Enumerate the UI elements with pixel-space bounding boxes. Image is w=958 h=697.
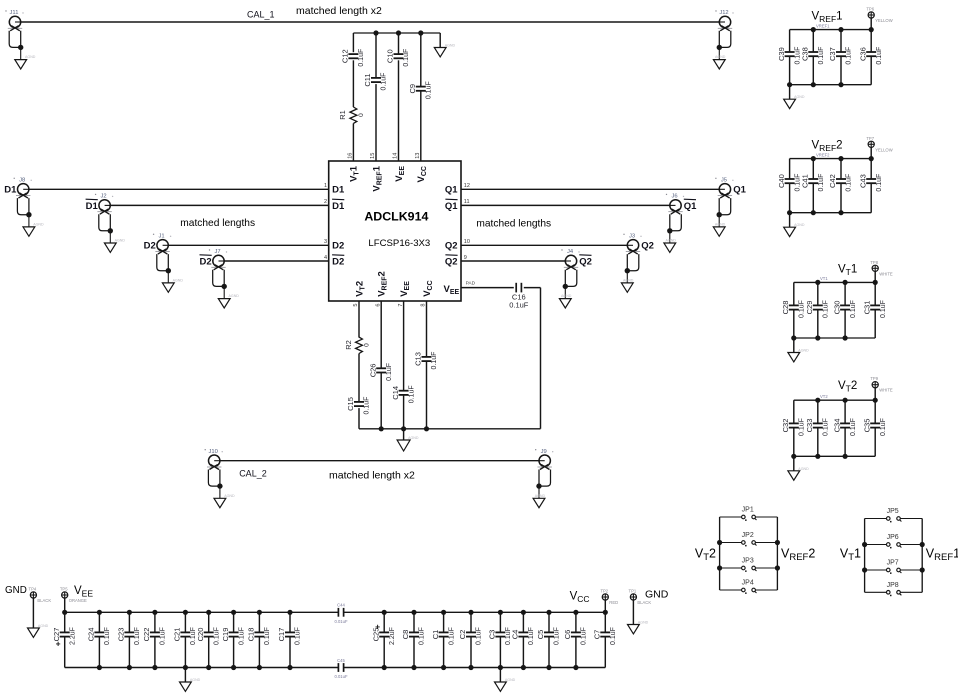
wire VEE bank ground stub	[184, 668, 186, 683]
svg-text:JP4: JP4	[742, 580, 754, 587]
wire PAD to C16	[461, 287, 514, 289]
svg-text:0.1uF: 0.1uF	[448, 627, 455, 645]
svg-text:C19: C19	[221, 628, 230, 642]
svg-text:C29: C29	[805, 301, 814, 315]
net label Q2bar	[579, 255, 592, 268]
svg-text:ORANGE: ORANGE	[69, 598, 87, 603]
svg-text:C23: C23	[117, 628, 126, 642]
wire ground stub VREF1	[789, 85, 791, 100]
pin number 10	[464, 239, 470, 245]
wire JP7 left	[865, 569, 887, 571]
wire C35 lower	[874, 428, 876, 457]
pin number 6	[375, 304, 381, 307]
wire C6 lower	[575, 637, 577, 668]
junction dots jumper rails	[717, 540, 780, 571]
wire top bypass gnd rail	[353, 32, 440, 34]
wire jumper block left rail 1	[864, 519, 866, 593]
connector J10 (CAL_2 SMA)	[205, 449, 235, 508]
wire C33 lower	[817, 428, 819, 457]
resistor R2	[344, 337, 371, 353]
wire C17 lower	[289, 637, 291, 668]
capacitor C13	[414, 352, 439, 370]
svg-text:C32: C32	[781, 419, 790, 433]
capacitor C25	[371, 622, 396, 645]
wire C39 upper	[789, 30, 791, 52]
capacitor C33	[805, 418, 830, 436]
pin number 3	[324, 239, 327, 245]
wire C23 upper	[128, 612, 130, 632]
svg-text:J4: J4	[567, 249, 574, 255]
test point TP6 (YELLOW)	[866, 7, 892, 30]
svg-text:0.01uF: 0.01uF	[334, 619, 347, 624]
junction dots VREF2 bottom rail	[787, 210, 844, 215]
svg-text:JP7: JP7	[887, 560, 899, 567]
pin number 5	[353, 304, 359, 307]
svg-text:C9: C9	[408, 84, 417, 94]
pin number 9	[464, 255, 467, 261]
net label GND (left)	[5, 585, 27, 596]
svg-text:0: 0	[364, 343, 371, 347]
svg-text:C26: C26	[368, 364, 377, 378]
junction dots jumper rails	[862, 542, 925, 573]
wire pin7 to C14	[403, 301, 405, 391]
svg-text:9: 9	[464, 255, 467, 261]
U1 pin label D2bar	[332, 255, 344, 268]
svg-text:J6: J6	[671, 194, 677, 200]
svg-text:AGND: AGND	[408, 436, 419, 440]
wire VEE top rail	[65, 611, 339, 613]
capacitor C42	[828, 174, 853, 192]
junction dots VT1 top rail	[815, 280, 878, 285]
svg-text:0.1uF: 0.1uF	[238, 627, 245, 645]
wire C5 upper	[548, 612, 550, 632]
svg-text:0.1uF: 0.1uF	[818, 47, 825, 65]
wire C19 lower	[233, 637, 235, 668]
svg-text:0.1uF: 0.1uF	[403, 49, 410, 67]
jumper JP2	[742, 532, 757, 546]
svg-text:VREF2: VREF2	[816, 152, 830, 157]
wire C42 lower	[840, 183, 842, 213]
wire VT1 top rail	[794, 281, 875, 283]
ground (VREF2 bank)	[784, 223, 805, 236]
pin label PAD	[466, 280, 476, 286]
capacitor C12	[341, 49, 366, 67]
note matched length x2 (bottom)	[329, 470, 415, 482]
wire C30 upper	[844, 282, 846, 305]
svg-text:0.1uF: 0.1uF	[509, 301, 529, 310]
wire VCC column upper	[420, 33, 422, 87]
wire JP1 left	[720, 516, 742, 518]
capacitor C39	[777, 47, 802, 65]
capacitor C15	[346, 397, 371, 415]
wire jumper block left rail 2	[719, 517, 721, 590]
svg-text:C44: C44	[337, 603, 345, 608]
capacitor C44 (rail coupling top)	[334, 603, 347, 624]
net label VREF2 (small)	[816, 152, 830, 157]
svg-text:C8: C8	[401, 630, 410, 640]
wire rail to ground stub	[439, 33, 441, 48]
svg-text:matched length x2: matched length x2	[329, 470, 415, 482]
svg-text:+: +	[56, 639, 61, 649]
wire VCC top rail	[344, 611, 606, 613]
svg-text:C4: C4	[511, 630, 520, 640]
svg-text:Q2: Q2	[579, 256, 592, 267]
svg-text:AGND: AGND	[224, 494, 235, 498]
svg-text:AGND: AGND	[38, 624, 49, 628]
svg-text:AGND: AGND	[638, 621, 649, 625]
svg-text:GND: GND	[645, 589, 669, 601]
svg-text:PAD: PAD	[466, 280, 476, 286]
svg-text:ADCLK914: ADCLK914	[364, 210, 428, 224]
net label VREF2 (jumper)	[781, 547, 815, 564]
svg-text:C2: C2	[458, 630, 467, 640]
wire jumper block right rail 2	[776, 517, 778, 590]
svg-text:0.1uF: 0.1uF	[476, 627, 483, 645]
svg-text:0.1uF: 0.1uF	[358, 49, 365, 67]
svg-text:Q2: Q2	[445, 256, 458, 267]
wire C18 lower	[258, 637, 260, 668]
capacitor C34	[832, 418, 857, 436]
pin number 16	[348, 153, 354, 159]
capacitor C22	[142, 627, 167, 645]
wire C28 lower	[793, 310, 795, 338]
svg-text:D2: D2	[332, 256, 344, 267]
wire C2 lower	[470, 637, 472, 668]
capacitor C31	[862, 300, 887, 318]
svg-text:1: 1	[324, 183, 327, 189]
ground (TP4)	[28, 624, 49, 637]
wire VEE column upper	[398, 33, 400, 54]
pin number 4	[324, 255, 327, 261]
wire C43 upper	[870, 159, 872, 179]
wire C30 lower	[844, 310, 846, 338]
capacitor C17	[277, 627, 302, 645]
svg-text:J1: J1	[159, 234, 165, 240]
wire VREF1 top rail	[790, 29, 872, 31]
test point TP9 (WHITE)	[870, 376, 893, 400]
U1 pin label VT1 (top)	[349, 165, 361, 182]
wire C42 upper	[840, 159, 842, 179]
wire C28 upper	[793, 282, 795, 305]
wire C25 upper	[383, 612, 385, 632]
capacitor C4	[511, 627, 536, 645]
svg-text:TP1: TP1	[629, 589, 637, 594]
svg-text:C11: C11	[363, 73, 372, 86]
wire C40 upper	[789, 159, 791, 179]
svg-text:JP6: JP6	[887, 534, 899, 541]
svg-text:AGND: AGND	[715, 55, 726, 59]
svg-text:0.1uF: 0.1uF	[818, 174, 825, 192]
svg-text:AGND: AGND	[535, 494, 546, 498]
wire C10 to pin14	[398, 60, 400, 161]
wire VT2 top rail	[794, 399, 875, 401]
svg-text:0.1uF: 0.1uF	[880, 300, 887, 318]
wire C7 upper	[604, 612, 606, 632]
svg-text:C14: C14	[391, 386, 400, 400]
svg-text:0.1uF: 0.1uF	[381, 73, 388, 91]
jumper JP1	[742, 507, 757, 521]
capacitor C6	[563, 627, 588, 645]
svg-text:0.1uF: 0.1uF	[528, 627, 535, 645]
svg-text:C33: C33	[805, 419, 814, 433]
svg-text:C35: C35	[862, 419, 871, 433]
svg-text:C15: C15	[346, 397, 355, 411]
svg-text:D1: D1	[86, 201, 99, 212]
wire C41 lower	[812, 183, 814, 213]
ground (VREF1 bank)	[784, 95, 805, 108]
svg-text:13: 13	[415, 153, 421, 159]
net label VCC	[570, 591, 590, 605]
capacitor C24	[87, 627, 112, 645]
wire C12 to R1	[352, 60, 354, 107]
svg-text:14: 14	[393, 153, 399, 159]
wire JP4 right	[756, 589, 778, 591]
wire JP4 left	[720, 589, 742, 591]
svg-text:JP5: JP5	[887, 508, 899, 515]
svg-text:J7: J7	[214, 249, 220, 255]
wire VT2 bottom rail	[794, 455, 875, 457]
svg-text:12: 12	[464, 183, 470, 189]
junction dots VEE top rail	[62, 610, 293, 615]
capacitor C5	[536, 627, 561, 645]
svg-text:0.1uF: 0.1uF	[426, 81, 433, 99]
svg-text:0.1uF: 0.1uF	[581, 627, 588, 645]
net label D1bar	[86, 199, 99, 212]
capacitor C16	[509, 283, 529, 310]
wire C43 lower	[870, 183, 872, 213]
wire C25 lower	[383, 637, 385, 668]
jumper JP4	[742, 580, 757, 594]
svg-text:0.1uF: 0.1uF	[160, 627, 167, 645]
svg-text:AGND: AGND	[666, 239, 677, 243]
connector J12 (CAL_1 SMA)	[713, 10, 733, 69]
capacitor C11	[363, 73, 388, 91]
wire C38 upper	[812, 30, 814, 52]
wire C21 upper	[184, 612, 186, 632]
connector J4 (Q2bar)	[559, 249, 579, 308]
svg-text:Q1: Q1	[445, 185, 458, 196]
wire C36 lower	[870, 56, 872, 84]
wire JP5 right	[900, 518, 922, 520]
wire ground stub VT1	[793, 338, 795, 353]
svg-text:YELLOW: YELLOW	[875, 18, 893, 23]
wire CAL_1	[21, 21, 720, 23]
svg-text:C45: C45	[337, 658, 345, 663]
svg-text:J5: J5	[721, 178, 727, 184]
svg-text:D2: D2	[200, 256, 212, 267]
ground (VEE bank)	[180, 678, 201, 691]
test point TP2 (RED)	[600, 589, 618, 613]
svg-text:C21: C21	[173, 628, 182, 642]
U1 pin label Q2	[445, 241, 458, 252]
wire pin6 to C26	[380, 301, 382, 368]
junction dots VCC top rail	[382, 610, 608, 615]
wire Q2	[461, 244, 627, 246]
svg-text:C39: C39	[777, 47, 786, 61]
ground (VT1 bank)	[788, 349, 809, 362]
wire C6 upper	[575, 612, 577, 632]
svg-text:15: 15	[370, 153, 376, 159]
svg-text:0.1uF: 0.1uF	[386, 363, 393, 381]
svg-text:C22: C22	[142, 628, 151, 642]
wire C38 lower	[812, 56, 814, 84]
connector J9 (CAL_2 SMA)	[533, 449, 553, 508]
capacitor C2	[458, 627, 483, 645]
capacitor C36	[858, 47, 883, 65]
junction dots VT2 bottom rail	[791, 454, 848, 459]
svg-text:AGND: AGND	[794, 223, 805, 227]
svg-text:0: 0	[358, 113, 365, 117]
svg-text:J12: J12	[719, 10, 728, 16]
svg-text:C24: C24	[87, 628, 96, 642]
svg-text:JP1: JP1	[742, 507, 754, 514]
wire pin8 to C13	[426, 301, 428, 357]
svg-text:TP2: TP2	[600, 589, 608, 594]
svg-text:C31: C31	[862, 301, 871, 315]
wire C33 upper	[817, 400, 819, 423]
pin number 12	[464, 183, 470, 189]
wire R1 to pin16	[352, 123, 354, 161]
wire C3 lower	[499, 637, 501, 668]
wire C31 lower	[874, 310, 876, 338]
wire C4 upper	[522, 612, 524, 632]
capacitor C9	[408, 81, 433, 99]
capacitor C3	[488, 627, 512, 645]
wire CAL_2	[220, 460, 539, 462]
wire rail to ground (under IC)	[403, 429, 405, 440]
svg-text:J3: J3	[629, 234, 635, 240]
jumper JP3	[742, 558, 757, 572]
net label D2	[144, 241, 156, 252]
junction dots VEE bottom rail	[97, 665, 293, 670]
wire Q1bar	[461, 204, 670, 206]
wire pin5 to R2	[358, 301, 360, 338]
capacitor C7	[593, 627, 618, 645]
U1 pin label VCC (top)	[416, 166, 428, 182]
svg-text:JP3: JP3	[742, 558, 754, 565]
net label VREF2 title	[812, 139, 843, 153]
pin number 8	[421, 304, 427, 307]
svg-text:0.1uF: 0.1uF	[610, 627, 617, 645]
svg-text:J11: J11	[10, 10, 19, 16]
wire C5 lower	[548, 637, 550, 668]
pin number 7	[398, 304, 404, 307]
connector J1 (D2)	[153, 234, 183, 293]
svg-text:TP7: TP7	[866, 136, 874, 141]
svg-text:AGND: AGND	[173, 279, 184, 283]
svg-text:J9: J9	[541, 449, 547, 455]
note matched length x2 (top)	[296, 5, 382, 17]
capacitor C37	[828, 47, 853, 65]
capacitor C20	[196, 627, 221, 645]
svg-text:AGND: AGND	[505, 678, 516, 682]
net label VT2 title	[838, 380, 857, 394]
capacitor C30	[832, 300, 857, 318]
wire Q1	[461, 188, 719, 190]
U1 pin label VEE (bottom)	[399, 281, 411, 297]
net label Q1	[733, 185, 746, 196]
svg-text:JP8: JP8	[887, 582, 899, 589]
wire C36 upper	[870, 30, 872, 52]
svg-text:10: 10	[464, 239, 470, 245]
svg-text:AGND: AGND	[794, 95, 805, 99]
svg-text:0.01uF: 0.01uF	[334, 674, 347, 679]
wire C24 upper	[98, 612, 100, 632]
U1 pin label D1bar	[332, 199, 345, 212]
svg-text:0.1uF: 0.1uF	[264, 627, 271, 645]
svg-text:C17: C17	[277, 628, 286, 642]
svg-text:Q1: Q1	[445, 201, 458, 212]
svg-text:WHITE: WHITE	[879, 271, 893, 276]
svg-text:AGND: AGND	[25, 55, 36, 59]
svg-text:AGND: AGND	[190, 678, 201, 682]
pin number 13	[415, 153, 421, 159]
net label VT1 title	[838, 264, 857, 278]
svg-text:WHITE: WHITE	[879, 388, 893, 393]
svg-text:R2: R2	[344, 340, 353, 350]
svg-text:0.1uF: 0.1uF	[880, 418, 887, 436]
svg-text:0.1uF: 0.1uF	[850, 418, 857, 436]
svg-text:0.1uF: 0.1uF	[846, 174, 853, 192]
svg-text:C7: C7	[593, 630, 602, 640]
wire C23 lower	[128, 637, 130, 668]
U1 pin label Q1bar	[445, 199, 458, 212]
pin number 15	[370, 153, 376, 159]
wire VT1 bottom rail	[794, 337, 875, 339]
wire JP3 left	[720, 567, 742, 569]
wire C14 to rail	[403, 395, 405, 429]
svg-text:C13: C13	[414, 352, 423, 366]
resistor R1	[338, 107, 365, 123]
svg-text:GND: GND	[5, 585, 27, 596]
svg-text:C30: C30	[832, 301, 841, 315]
svg-text:C3: C3	[488, 630, 497, 640]
junction dots VCC bottom rail	[382, 665, 579, 670]
op-amp U1 ADCLK914 body	[329, 161, 461, 301]
net label VREF1 title	[812, 10, 843, 24]
junction dots VREF1 bottom rail	[787, 82, 844, 87]
connector J11 (CAL_1 SMA)	[5, 10, 35, 69]
wire VCC bank ground stub	[499, 668, 501, 683]
wire Q2bar	[461, 260, 565, 262]
wire jumper block right rail 1	[921, 519, 923, 593]
connector J3 (Q2)	[621, 234, 641, 293]
capacitor C28	[781, 300, 806, 318]
wire C27 upper	[64, 612, 66, 632]
wire VEE bottom rail	[65, 667, 339, 669]
svg-text:TP9: TP9	[870, 376, 878, 381]
svg-text:Q1: Q1	[684, 201, 697, 212]
wire VCC bottom rail	[344, 667, 606, 669]
svg-text:3: 3	[324, 239, 327, 245]
net label CAL_2	[239, 468, 267, 478]
net label Q1bar	[684, 199, 697, 212]
capacitor C29	[805, 300, 830, 318]
wire JP2 left	[720, 542, 742, 544]
wire C39 lower	[789, 56, 791, 84]
svg-text:matched lengths: matched lengths	[476, 218, 551, 229]
svg-text:D2: D2	[332, 241, 344, 252]
svg-text:RED: RED	[609, 600, 618, 605]
junction dots VREF1 top rail	[811, 27, 874, 32]
capacitor C43	[858, 174, 883, 192]
net label VT1 (jumper)	[840, 547, 861, 564]
ground (TP1)	[628, 621, 649, 634]
wire C41 upper	[812, 159, 814, 179]
note matched lengths (left)	[180, 218, 255, 229]
net label D2bar	[200, 255, 212, 268]
capacitor C14	[391, 385, 416, 403]
